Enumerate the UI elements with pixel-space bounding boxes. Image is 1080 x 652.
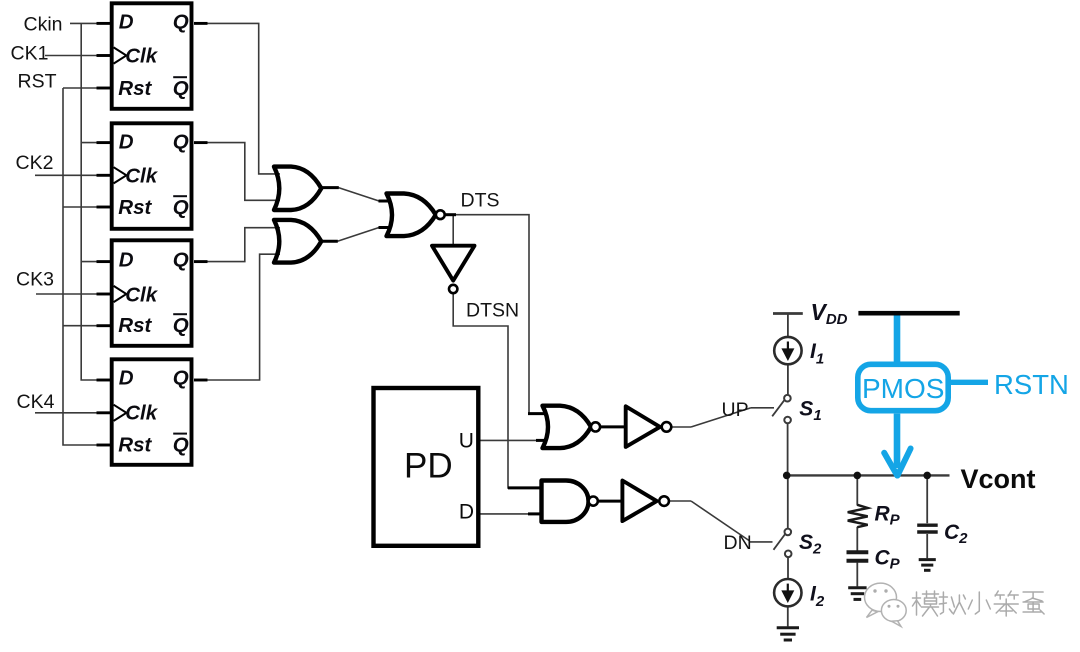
svg-text:CK3: CK3 (16, 269, 54, 291)
svg-text:Vcont: Vcont (961, 464, 1036, 494)
svg-text:D: D (459, 500, 474, 523)
svg-text:Clk: Clk (125, 402, 159, 425)
svg-text:CK1: CK1 (11, 43, 49, 65)
svg-text:D: D (119, 130, 134, 153)
svg-text:Clk: Clk (125, 45, 159, 68)
svg-text:PD: PD (404, 447, 453, 486)
svg-text:Q: Q (173, 248, 189, 271)
svg-text:Q: Q (173, 314, 189, 337)
svg-text:Rst: Rst (118, 434, 152, 457)
svg-text:CK4: CK4 (17, 391, 55, 413)
svg-text:Ckin: Ckin (24, 14, 63, 36)
svg-text:D: D (119, 10, 134, 33)
svg-text:Q: Q (173, 77, 189, 100)
svg-text:Q: Q (173, 130, 189, 153)
svg-text:DN: DN (724, 532, 752, 554)
svg-text:D: D (119, 248, 134, 271)
svg-text:Rst: Rst (118, 196, 152, 219)
svg-text:Q: Q (173, 196, 189, 219)
svg-text:UP: UP (722, 399, 749, 421)
svg-text:Clk: Clk (125, 165, 159, 188)
svg-text:DTS: DTS (461, 190, 500, 212)
svg-text:RST: RST (18, 71, 57, 93)
svg-text:RSTN: RSTN (994, 369, 1069, 400)
svg-text:Q: Q (173, 10, 189, 33)
svg-text:DTSN: DTSN (466, 300, 519, 322)
svg-text:Clk: Clk (125, 284, 159, 307)
svg-text:PMOS: PMOS (862, 373, 944, 404)
svg-text:Rst: Rst (118, 314, 152, 337)
svg-text:Q: Q (173, 366, 189, 389)
svg-text:U: U (459, 430, 474, 453)
svg-text:D: D (119, 366, 134, 389)
svg-text:CK2: CK2 (16, 152, 54, 174)
svg-text:Q: Q (173, 434, 189, 457)
svg-text:Rst: Rst (118, 77, 152, 100)
